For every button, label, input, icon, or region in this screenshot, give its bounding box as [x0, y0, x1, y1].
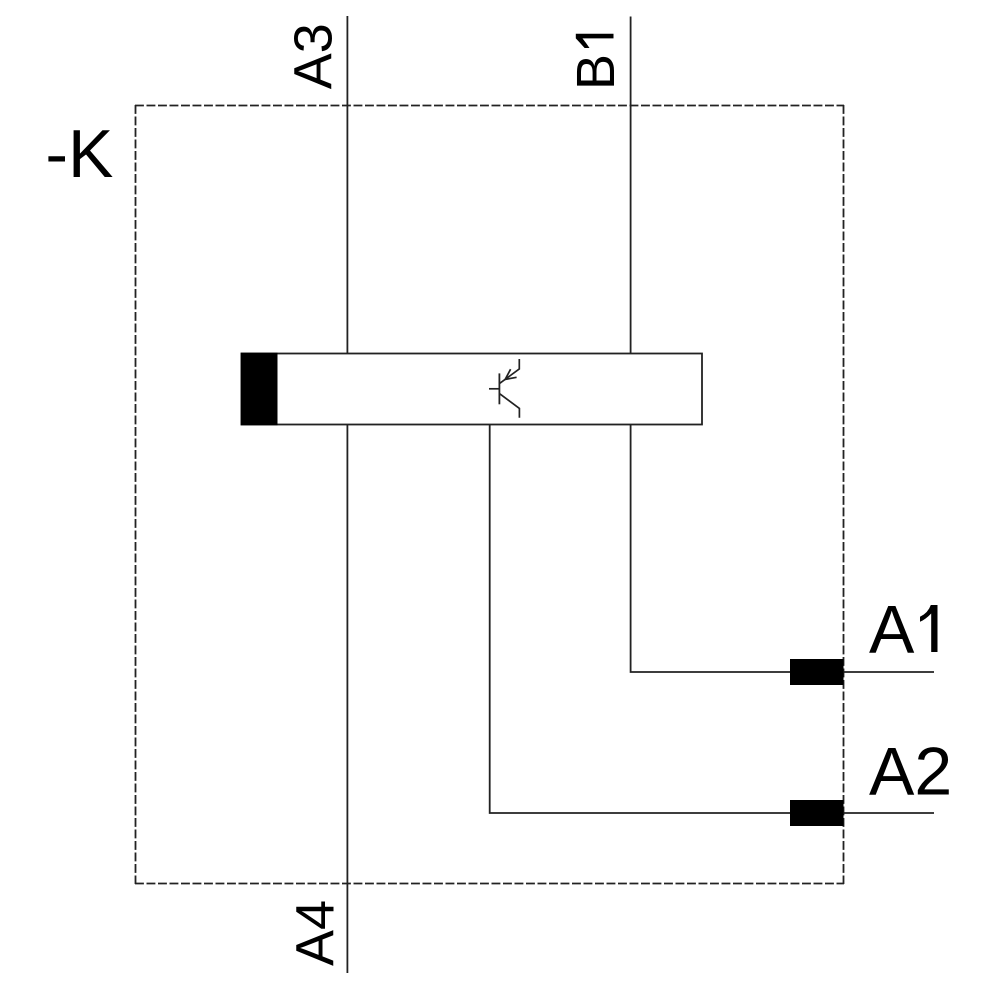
- transistor Q1 emitter with stub: [500, 359, 520, 383]
- transistor Q1 collector with stub: [500, 394, 520, 418]
- svg-text:A2: A2: [869, 734, 952, 810]
- wire B1 to A1 terminal: [631, 425, 790, 672]
- terminal block A1: [790, 659, 844, 685]
- transistor Q1 base bar: [498, 373, 500, 404]
- label A1 digit 1: [920, 605, 938, 652]
- output block body U1: [242, 354, 703, 425]
- svg-text:A3: A3: [284, 23, 344, 89]
- svg-text:B: B: [566, 54, 626, 90]
- output block black band: [241, 353, 278, 426]
- transistor Q1 base lead: [489, 388, 499, 390]
- transistor Q1 emitter arrowhead: [505, 369, 516, 379]
- svg-text:A4: A4: [285, 900, 345, 966]
- wire A4 (bottom vertical): [346, 425, 348, 973]
- wire A1 external stub: [844, 671, 935, 673]
- terminal block A2: [790, 800, 844, 826]
- svg-text:-K: -K: [45, 116, 113, 192]
- label B1 digit 1: [576, 34, 614, 48]
- svg-text:A: A: [869, 592, 915, 668]
- wire A3 (top vertical): [346, 16, 348, 353]
- wire A2 external stub: [844, 812, 935, 814]
- wire emitter drop to A2 terminal: [490, 425, 790, 813]
- device boundary dashed box: [135, 105, 844, 884]
- wire B1 (top vertical): [630, 17, 632, 354]
